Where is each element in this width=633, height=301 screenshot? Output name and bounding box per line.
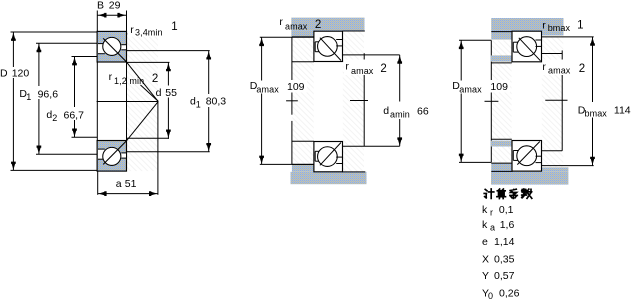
svg-text:bmax: bmax (585, 108, 608, 118)
svg-text:r: r (542, 61, 546, 73)
svg-text:2: 2 (579, 63, 585, 75)
svg-text:55: 55 (165, 87, 177, 99)
svg-text:2: 2 (152, 73, 158, 85)
svg-text:r: r (279, 16, 283, 28)
svg-text:66,7: 66,7 (64, 109, 85, 121)
svg-text:96,6: 96,6 (38, 88, 59, 100)
svg-text:1: 1 (171, 21, 177, 33)
svg-text:a: a (116, 178, 122, 190)
svg-text:r: r (490, 207, 493, 217)
svg-text:k: k (482, 219, 488, 231)
svg-text:120: 120 (12, 67, 30, 79)
svg-text:0,1: 0,1 (499, 204, 514, 216)
svg-text:amax: amax (285, 22, 308, 32)
svg-text:amax: amax (548, 66, 571, 76)
svg-text:0: 0 (488, 291, 493, 301)
svg-text:amax: amax (351, 66, 374, 76)
svg-text:1: 1 (196, 99, 201, 109)
svg-text:0,35: 0,35 (494, 253, 515, 265)
svg-text:amax: amax (459, 85, 482, 95)
svg-text:80,3: 80,3 (206, 96, 227, 108)
svg-text:2: 2 (315, 19, 321, 31)
svg-text:1,14: 1,14 (494, 236, 515, 248)
svg-text:66: 66 (417, 106, 429, 118)
svg-text:2: 2 (380, 63, 386, 75)
svg-text:0,26: 0,26 (499, 287, 520, 299)
svg-text:2: 2 (52, 113, 57, 123)
svg-text:109: 109 (490, 81, 508, 93)
svg-text:Y: Y (482, 270, 489, 282)
svg-text:a: a (490, 223, 495, 233)
svg-text:k: k (482, 204, 488, 216)
svg-text:r: r (345, 61, 349, 73)
svg-text:d: d (383, 105, 389, 117)
svg-text:109: 109 (287, 81, 305, 93)
svg-text:amin: amin (390, 110, 410, 120)
svg-text:e: e (482, 236, 488, 248)
svg-text:51: 51 (125, 178, 137, 190)
svg-text:r: r (542, 20, 546, 32)
svg-text:1: 1 (26, 92, 31, 102)
svg-text:0,57: 0,57 (494, 270, 515, 282)
svg-text:X: X (482, 253, 489, 265)
svg-text:1,6: 1,6 (500, 219, 515, 231)
svg-text:1,2 min: 1,2 min (114, 76, 144, 86)
svg-text:1: 1 (577, 20, 583, 32)
svg-text:bmax: bmax (548, 23, 571, 33)
svg-text:D: D (0, 67, 8, 79)
svg-text:114: 114 (614, 105, 631, 117)
svg-text:r: r (109, 71, 113, 83)
svg-text:B: B (97, 0, 104, 11)
svg-text:amax: amax (256, 85, 279, 95)
svg-text:d: d (156, 87, 162, 99)
svg-text:3,4min: 3,4min (135, 28, 163, 38)
svg-text:29: 29 (109, 0, 121, 11)
svg-text:r: r (130, 24, 134, 36)
